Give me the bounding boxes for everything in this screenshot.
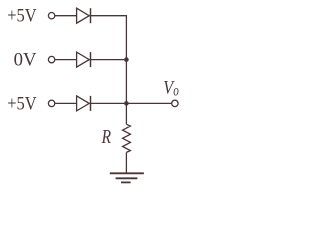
wire resistor to ground [125, 152, 127, 173]
terminal T1 [48, 13, 54, 19]
junction node row3 [124, 101, 129, 106]
junction node row2 [124, 57, 129, 62]
wire row2 cathode to bus [91, 59, 127, 61]
svg-text:+5V: +5V [7, 94, 37, 114]
diode D2 [77, 52, 90, 67]
output terminal Vo [172, 100, 178, 106]
svg-text:0V: 0V [14, 50, 38, 70]
resistor R [123, 124, 131, 152]
ground [110, 172, 144, 174]
wire row1 cathode to corner [91, 15, 128, 17]
wire bus vertical [125, 15, 127, 124]
wire row3 cathode through bus to output [91, 102, 172, 104]
wire row1 anode [55, 15, 77, 17]
diode D1 [77, 8, 90, 23]
terminal T2 [48, 56, 54, 62]
svg-text:o: o [173, 82, 179, 99]
diode D3 [77, 96, 90, 111]
svg-text:+5V: +5V [7, 7, 37, 27]
wire row3 anode [55, 102, 77, 104]
terminal T3 [48, 100, 54, 106]
svg-text:R: R [101, 126, 112, 148]
wire row2 anode [55, 59, 77, 61]
